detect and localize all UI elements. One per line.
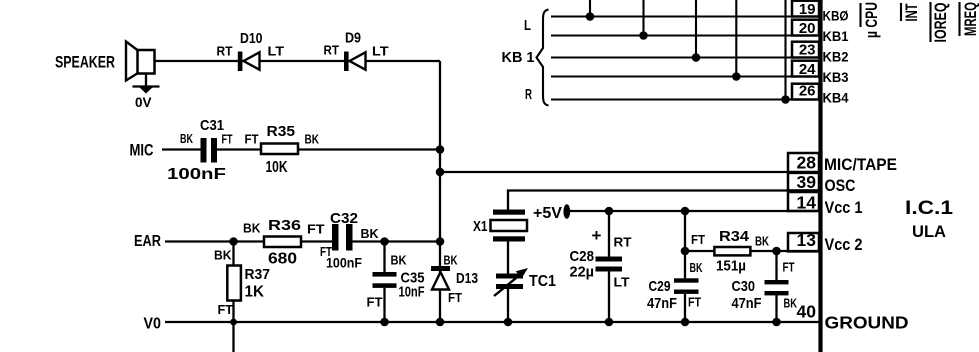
svg-text:FT: FT: [688, 295, 701, 310]
svg-text:RT: RT: [614, 235, 632, 250]
svg-text:EAR: EAR: [134, 233, 161, 250]
svg-text:µ CPU: µ CPU: [862, 2, 881, 38]
svg-text:INT: INT: [902, 3, 921, 21]
svg-text:MIC: MIC: [130, 141, 154, 160]
svg-text:R35: R35: [267, 123, 296, 140]
wire MIC line: [162, 148, 440, 150]
node junction C29-ground: [681, 318, 690, 327]
wire KB column 2: [639, 0, 648, 40]
resistor R34: [691, 228, 769, 275]
svg-text:20: 20: [799, 20, 816, 37]
pin name Vcc1: [825, 198, 863, 217]
label V0: [144, 316, 162, 333]
svg-text:KB3: KB3: [823, 69, 849, 85]
svg-text:BK: BK: [180, 131, 193, 146]
connector KB1 brace: [502, 10, 549, 106]
svg-text:C30: C30: [732, 278, 756, 295]
svg-text:23: 23: [799, 42, 816, 59]
wire KB column 1: [586, 0, 595, 21]
pin name KB3: [823, 69, 849, 85]
trimmer capacitor TC1: [494, 268, 556, 322]
net MREQ (rotated, active low): [960, 2, 979, 36]
node junction V0-C35: [380, 318, 389, 327]
svg-text:V0: V0: [144, 316, 162, 333]
label EAR: [134, 233, 161, 250]
svg-text:14: 14: [797, 193, 817, 213]
svg-text:47nF: 47nF: [732, 295, 762, 312]
node junction V0-D13: [436, 318, 445, 327]
svg-text:RT: RT: [217, 44, 233, 59]
svg-text:BK: BK: [690, 260, 703, 275]
wire KB column 4: [732, 0, 741, 81]
pin 40 number: [797, 302, 817, 322]
svg-text:FT: FT: [245, 132, 259, 147]
svg-text:I.C.1: I.C.1: [905, 198, 954, 219]
svg-text:13: 13: [797, 230, 817, 250]
svg-text:FT: FT: [448, 290, 462, 305]
svg-text:GROUND: GROUND: [825, 313, 909, 333]
svg-text:100nF: 100nF: [326, 254, 362, 270]
svg-text:D10: D10: [240, 30, 263, 47]
wire KB column 5: [781, 0, 790, 104]
svg-text:0V: 0V: [135, 94, 152, 110]
svg-text:FT: FT: [367, 295, 383, 310]
pin name KB0: [823, 8, 849, 24]
wire R37 branch: [232, 242, 234, 352]
pin 26 box: [792, 83, 819, 100]
svg-text:BK: BK: [391, 252, 408, 267]
speaker LS1: [55, 42, 155, 81]
svg-text:BK: BK: [755, 234, 769, 249]
svg-text:C28: C28: [570, 248, 595, 265]
svg-text:26: 26: [799, 83, 816, 100]
node junction C30-Vcc2: [772, 247, 781, 256]
node junction C29-Vcc1: [681, 207, 690, 216]
svg-text:RT: RT: [324, 43, 340, 58]
svg-text:1K: 1K: [245, 284, 265, 301]
wire V0 ground rail: [165, 321, 820, 323]
svg-text:22µ: 22µ: [570, 264, 595, 281]
svg-text:R36: R36: [268, 217, 301, 234]
power +5V: [533, 204, 570, 222]
wire KB2 row: [551, 56, 820, 58]
svg-text:R34: R34: [719, 228, 750, 245]
capacitor C29: [647, 211, 703, 322]
label I.C.1: [905, 198, 954, 219]
svg-text:BK: BK: [361, 226, 380, 241]
svg-text:10nF: 10nF: [399, 284, 425, 301]
resistor R35: [245, 123, 320, 176]
svg-text:BK: BK: [784, 296, 798, 311]
node junction EAR-D13: [436, 237, 445, 246]
svg-text:KB 1: KB 1: [502, 49, 535, 66]
svg-text:TC1: TC1: [529, 273, 556, 290]
svg-text:MIC/TAPE: MIC/TAPE: [824, 155, 897, 174]
net IOREQ (rotated, active low): [931, 2, 951, 43]
svg-text:ULA: ULA: [912, 222, 946, 241]
svg-text:680: 680: [268, 251, 297, 268]
label MIC: [130, 141, 154, 160]
capacitor C32: [320, 210, 379, 270]
svg-text:IOREQ: IOREQ: [931, 3, 950, 43]
wire KB4 row: [551, 98, 820, 100]
wire MIC/TAPE line to pin 28: [440, 171, 820, 173]
svg-text:MREQ: MREQ: [961, 2, 979, 36]
capacitor C31: [167, 117, 233, 183]
svg-text:L: L: [524, 17, 531, 34]
svg-text:LT: LT: [268, 44, 285, 59]
pin name MIC/TAPE: [824, 155, 897, 174]
crystal X1: [473, 210, 527, 274]
resistor R36: [243, 217, 325, 268]
svg-text:R37: R37: [245, 266, 271, 283]
pin name KB2: [823, 49, 849, 65]
svg-text:FT: FT: [218, 302, 234, 317]
svg-text:40: 40: [797, 302, 817, 322]
svg-text:OSC: OSC: [825, 176, 856, 195]
node junction MIC: [436, 145, 445, 154]
capacitor C30: [732, 251, 798, 322]
svg-text:151µ: 151µ: [716, 258, 746, 275]
svg-text:BK: BK: [243, 221, 261, 236]
node junction EAR-R37: [229, 237, 238, 246]
wire Vcc1 line to pin 14: [566, 210, 820, 212]
pin name KB4: [823, 90, 849, 106]
svg-text:BK: BK: [444, 252, 458, 267]
svg-text:FT: FT: [222, 131, 233, 146]
svg-text:BK: BK: [214, 248, 232, 263]
diode D13: [431, 252, 478, 305]
wire speaker line: [154, 60, 440, 62]
pin name KB1: [823, 28, 849, 44]
capacitor C35: [367, 252, 425, 309]
svg-text:C31: C31: [200, 117, 224, 134]
pin 23 box: [792, 42, 819, 59]
svg-text:C32: C32: [330, 210, 358, 227]
svg-text:+5V: +5V: [533, 205, 563, 222]
wire EAR line: [165, 240, 440, 242]
node junction C30-ground: [772, 318, 781, 327]
svg-text:24: 24: [799, 61, 816, 78]
svg-text:D9: D9: [345, 30, 361, 47]
svg-text:39: 39: [797, 172, 817, 192]
svg-text:100nF: 100nF: [167, 166, 226, 183]
svg-text:Vcc 1: Vcc 1: [825, 198, 863, 217]
svg-text:FT: FT: [307, 222, 325, 237]
node junction C28-Vcc1: [605, 207, 614, 216]
node junction TC1-ground: [504, 318, 513, 327]
pin 13 box: [788, 230, 819, 251]
node junction C28-ground: [605, 318, 614, 327]
node junction C29-Vcc2: [681, 247, 690, 256]
wire KB0 row: [551, 15, 820, 17]
svg-text:SPEAKER: SPEAKER: [55, 53, 115, 72]
pin name Vcc2: [825, 235, 863, 254]
capacitor C28 (electrolytic): [570, 211, 632, 322]
svg-text:KB1: KB1: [823, 28, 849, 44]
node junction MIC/TAPE: [436, 168, 445, 177]
wire OSC line to pin 39: [508, 191, 820, 210]
pin 39 box: [788, 172, 819, 192]
pin 24 box: [792, 61, 819, 78]
label ULA: [912, 222, 946, 241]
svg-text:28: 28: [797, 153, 817, 173]
ground 0V (speaker): [133, 74, 160, 111]
wire Vcc2 line to pin 13: [685, 250, 820, 252]
pin name OSC: [825, 176, 856, 195]
diode D10: [217, 30, 285, 71]
node junction V0-R37: [230, 319, 237, 326]
wire KB1 row: [551, 34, 820, 36]
pin 14 box: [788, 192, 819, 213]
diode D9: [324, 30, 389, 72]
svg-text:KB4: KB4: [823, 90, 849, 106]
svg-text:LT: LT: [372, 44, 389, 59]
svg-text:+: +: [592, 226, 602, 245]
svg-text:D13: D13: [456, 270, 478, 287]
svg-text:BK: BK: [305, 132, 320, 147]
svg-text:KB2: KB2: [823, 49, 849, 65]
svg-text:R: R: [525, 86, 532, 103]
wire C35 branch: [383, 242, 385, 323]
svg-text:LT: LT: [614, 275, 630, 290]
svg-text:FT: FT: [691, 232, 705, 247]
svg-text:10K: 10K: [266, 159, 289, 176]
pin 20 box: [792, 20, 819, 37]
resistor R37: [214, 248, 270, 318]
pin name GROUND: [825, 313, 909, 333]
svg-text:19: 19: [799, 1, 816, 18]
node junction EAR-C35: [380, 237, 389, 246]
svg-text:C29: C29: [649, 278, 671, 295]
op IC boundary I.C.1: [818, 0, 822, 352]
wire KB column 3: [692, 0, 701, 62]
svg-text:KBØ: KBØ: [823, 8, 849, 24]
svg-text:FT: FT: [783, 260, 795, 275]
wire KB3 row: [551, 75, 820, 77]
svg-text:47nF: 47nF: [647, 295, 677, 312]
net uCPU (rotated): [861, 2, 882, 38]
pin 19 box: [792, 1, 819, 18]
svg-text:Vcc 2: Vcc 2: [825, 235, 863, 254]
svg-text:X1: X1: [473, 218, 488, 235]
pin 28 box: [788, 153, 819, 173]
wire main vertical node: [439, 61, 441, 322]
net INT (rotated, active low): [901, 3, 921, 22]
